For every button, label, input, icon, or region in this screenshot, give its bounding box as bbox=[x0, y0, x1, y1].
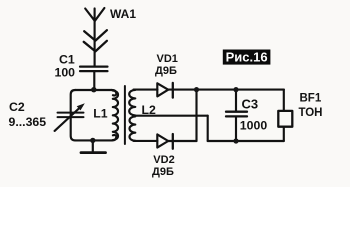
svg-text:WA1: WA1 bbox=[110, 7, 136, 21]
svg-text:Д9Б: Д9Б bbox=[155, 65, 177, 77]
svg-text:100: 100 bbox=[55, 66, 76, 80]
svg-text:C3: C3 bbox=[242, 97, 259, 112]
svg-text:9...365: 9...365 bbox=[9, 115, 47, 129]
svg-text:C1: C1 bbox=[59, 53, 75, 67]
svg-text:VD2: VD2 bbox=[153, 154, 174, 166]
svg-text:L2: L2 bbox=[142, 103, 157, 117]
svg-text:BF1: BF1 bbox=[300, 93, 322, 105]
svg-text:C2: C2 bbox=[9, 100, 25, 114]
svg-text:VD1: VD1 bbox=[157, 53, 178, 65]
svg-text:L1: L1 bbox=[93, 107, 108, 121]
svg-text:ТОН: ТОН bbox=[299, 107, 323, 119]
svg-text:Рис.16: Рис.16 bbox=[226, 50, 268, 65]
svg-text:Д9Б: Д9Б bbox=[152, 166, 174, 178]
svg-text:1000: 1000 bbox=[240, 119, 268, 133]
